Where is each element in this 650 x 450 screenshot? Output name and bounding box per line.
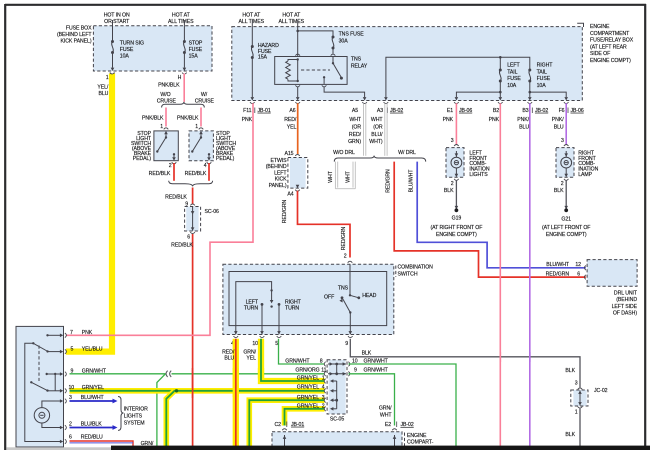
svg-text:RED/BLU: RED/BLU — [81, 435, 103, 441]
svg-text:(AT LEFT FRONT OF: (AT LEFT FRONT OF — [542, 225, 590, 231]
wire hot feed to stop fuse — [183, 20, 185, 42]
svg-text:ENGINE COMPT): ENGINE COMPT) — [436, 232, 477, 238]
wire PNK/BLK w/o cruise branch — [165, 108, 167, 127]
svg-text:15A: 15A — [189, 53, 199, 59]
svg-text:10: 10 — [69, 385, 75, 391]
svg-text:JB-02: JB-02 — [390, 108, 403, 114]
svg-text:GRN): GRN) — [348, 139, 361, 145]
svg-text:RED/: RED/ — [222, 349, 235, 355]
svg-text:RED/: RED/ — [284, 117, 297, 123]
hot at all times label (stop fuse) — [168, 13, 194, 25]
svg-text:1: 1 — [106, 75, 109, 81]
svg-text:G19: G19 — [452, 215, 462, 221]
wire RED/BLU pin 6 (red over blue) — [70, 441, 134, 447]
svg-text:PEDAL): PEDAL) — [216, 156, 235, 162]
left front combination lights box — [446, 148, 464, 178]
svg-text:FUSE: FUSE — [537, 76, 551, 82]
fuse TURN SIG FUSE 10A — [111, 40, 114, 54]
wire hot feed hazard fuse — [251, 20, 253, 47]
svg-text:TURN: TURN — [244, 305, 258, 311]
label bracket combination switch — [395, 266, 397, 278]
connector SC-06 — [190, 204, 195, 206]
svg-text:LEFT: LEFT — [274, 170, 287, 176]
wire BLK left lamp to ground — [455, 180, 457, 209]
fuse RIGHT TAIL FUSE 10A — [528, 69, 531, 83]
internal dashed mechanical link — [38, 346, 40, 382]
SC-05 pin arcs left — [324, 362, 326, 367]
left lamp label — [469, 150, 489, 178]
svg-text:W/O DRL: W/O DRL — [333, 150, 355, 156]
brace interior lights system — [118, 397, 124, 431]
svg-text:WHT: WHT — [349, 117, 361, 123]
wire GRN/YEL from C2 JB-01 to SC-05 pin 2 — [285, 409, 325, 426]
svg-text:TNS: TNS — [338, 285, 349, 291]
svg-text:H: H — [178, 75, 182, 81]
right turn contact — [278, 303, 281, 306]
pin F11 output — [250, 97, 255, 104]
svg-text:STOP: STOP — [189, 41, 203, 47]
fuse TNS FUSE 30A — [332, 36, 335, 50]
wire GRN/WHT flasher pin 9 with break, to SC-05 pin 11 — [70, 373, 166, 375]
svg-text:LEFT: LEFT — [246, 299, 259, 305]
wire BLU/WHT pin 3 to interior lights system — [70, 400, 113, 402]
turn signal wiper — [271, 290, 273, 300]
svg-text:GRN/WHT: GRN/WHT — [82, 369, 107, 375]
relay dashed link coil to switch — [301, 69, 330, 71]
engine compartment fuse/relay box enclosure — [232, 27, 583, 101]
connector SC-05 box — [329, 360, 346, 414]
node junction left tail fuse top — [499, 56, 502, 59]
internal switch 2 — [30, 381, 32, 383]
svg-text:A15: A15 — [285, 151, 294, 157]
internal line to pin 3 — [42, 401, 61, 408]
svg-text:BLU/WHT: BLU/WHT — [81, 395, 105, 401]
flasher unit box — [16, 326, 64, 447]
svg-text:GRN/ORG: GRN/ORG — [295, 368, 319, 374]
svg-text:A5: A5 — [352, 108, 358, 114]
combination switch bottom pins — [234, 331, 239, 338]
svg-text:4: 4 — [204, 163, 207, 169]
pin 1 entry — [164, 128, 169, 134]
svg-text:FUSE: FUSE — [507, 76, 521, 82]
fuse HAZARD FUSE 15A — [251, 45, 254, 59]
DRL pin 12 — [584, 266, 586, 271]
svg-text:ENGINE COMPT): ENGINE COMPT) — [590, 58, 631, 64]
wire BLU/BLK pin 2 to interior lights system — [70, 427, 113, 429]
wire PNK/BLU F6 to right lamp — [565, 103, 567, 145]
combination switch label — [398, 265, 434, 278]
svg-text:(OR: (OR — [352, 125, 362, 131]
svg-text:B3: B3 — [522, 108, 528, 114]
svg-text:E1: E1 — [447, 108, 453, 114]
svg-text:RED/BLK: RED/BLK — [149, 171, 171, 177]
wire BLK right lamp to ground — [565, 180, 567, 209]
wire BLK JC-02 down off page — [579, 409, 581, 448]
right lamp label — [578, 150, 598, 178]
pin 1 entry — [199, 128, 204, 134]
SC-05 internal bus top — [328, 364, 346, 374]
svg-text:YEL: YEL — [287, 125, 297, 131]
engine compartment fuse/relay box label — [590, 24, 634, 64]
svg-text:PNK: PNK — [242, 117, 253, 123]
svg-text:RED/GRN: RED/GRN — [341, 226, 347, 250]
svg-text:F6: F6 — [559, 108, 565, 114]
svg-text:ENGINE COMPT): ENGINE COMPT) — [546, 232, 587, 238]
svg-text:TAIL: TAIL — [507, 69, 517, 75]
wire overdraw PNK B2 and PNK/BLU B3 across BLK — [499, 352, 501, 362]
svg-text:BLU: BLU — [519, 125, 529, 131]
wire RED/GRN A4 to combination switch pin 2 — [298, 191, 351, 258]
wire PNK/BLK w/ cruise branch — [200, 108, 202, 127]
svg-text:HOT AT: HOT AT — [172, 13, 191, 19]
wire to right tail fuse — [500, 57, 530, 70]
svg-text:CRUISE: CRUISE — [157, 98, 177, 104]
svg-text:6: 6 — [577, 272, 580, 278]
svg-text:(BEHIND LEFT: (BEHIND LEFT — [57, 32, 92, 38]
svg-text:LEFT SIDE: LEFT SIDE — [612, 304, 638, 310]
ETWIS box — [290, 158, 306, 189]
connector A4 exit — [295, 185, 300, 192]
svg-text:GRN/YEL: GRN/YEL — [297, 384, 319, 390]
svg-text:RELAY: RELAY — [351, 64, 368, 70]
internal line to pin 2 — [42, 423, 61, 428]
svg-text:OF DASH): OF DASH) — [613, 310, 637, 316]
relay coil exit to A6 — [295, 85, 300, 87]
svg-text:12: 12 — [575, 262, 581, 268]
wire RED/BLK from switch pin 4 — [208, 163, 210, 181]
svg-text:ENGINE: ENGINE — [590, 24, 610, 30]
svg-text:FUSE/RELAY BOX: FUSE/RELAY BOX — [590, 38, 634, 44]
label bracket fuse/relay box — [577, 23, 583, 27]
svg-text:RED/GRN: RED/GRN — [282, 199, 288, 223]
wire GRN/YEL comb pin 10 to SC-05 pin 1 — [261, 339, 325, 381]
svg-text:5: 5 — [275, 341, 278, 347]
svg-text:(OR: (OR — [373, 125, 383, 131]
svg-text:JB-06: JB-06 — [459, 108, 472, 114]
svg-text:HOT AT: HOT AT — [242, 13, 261, 19]
svg-text:F11: F11 — [243, 108, 252, 114]
wire RED/GRN w/ drl to DRL unit pin 6 — [394, 162, 586, 278]
svg-text:10A: 10A — [120, 53, 130, 59]
svg-text:A4: A4 — [287, 192, 293, 198]
relay coil pin entry — [295, 54, 300, 56]
svg-text:JB-01: JB-01 — [291, 422, 304, 428]
SC-05 pin arcs right — [348, 362, 350, 367]
svg-text:HOT IN ON: HOT IN ON — [104, 13, 130, 19]
svg-text:BLU: BLU — [224, 356, 234, 362]
svg-text:RED/BLK: RED/BLK — [165, 195, 187, 201]
svg-text:CRUISE: CRUISE — [195, 98, 215, 104]
svg-text:2: 2 — [561, 181, 564, 187]
svg-text:WHT: WHT — [371, 117, 383, 123]
pin 2 exit left lamp — [454, 179, 459, 181]
svg-text:LIGHTS: LIGHTS — [469, 172, 488, 178]
internal wire pin 7 — [48, 334, 61, 336]
wire YEL/BLU from turn sig fuse to flasher box pin 5 — [66, 74, 112, 352]
svg-text:ENGINE: ENGINE — [407, 433, 427, 439]
pin 2 exit — [172, 157, 177, 164]
svg-text:GRN/: GRN/ — [243, 349, 256, 355]
svg-text:3: 3 — [575, 380, 578, 386]
svg-text:PNK/BLK: PNK/BLK — [177, 116, 199, 122]
wire RED/BLK merged to SC-06 — [192, 188, 194, 205]
internal lamp symbol — [34, 408, 49, 423]
svg-text:3: 3 — [69, 395, 72, 401]
svg-text:RED/: RED/ — [349, 132, 362, 138]
svg-text:PNK: PNK — [443, 117, 454, 123]
svg-text:W/: W/ — [201, 92, 208, 98]
svg-text:11: 11 — [321, 368, 326, 374]
DRL pin 6 — [584, 275, 586, 280]
svg-text:C2: C2 — [275, 422, 282, 428]
svg-text:ALL TIMES: ALL TIMES — [239, 19, 265, 25]
TNS switch inside combination switch — [349, 264, 351, 295]
fuse box dashed enclosure — [93, 26, 212, 71]
svg-text:WHT: WHT — [328, 170, 334, 182]
svg-text:TURN SIG: TURN SIG — [120, 41, 144, 47]
ground G19 — [455, 206, 459, 209]
relay switch — [332, 62, 334, 64]
wire GRN/WHT SC-05 pin 9 out to E2 — [349, 374, 395, 426]
right front combination lamp box — [556, 148, 574, 178]
fuse STOP FUSE 15A — [183, 40, 186, 54]
svg-text:HOT AT: HOT AT — [282, 13, 301, 19]
svg-text:10: 10 — [352, 358, 358, 364]
svg-text:GRN/WHT: GRN/WHT — [364, 368, 389, 374]
svg-text:SYSTEM: SYSTEM — [124, 421, 145, 427]
internal feed line to pin 6 — [25, 343, 61, 441]
svg-text:RED/GRN: RED/GRN — [386, 169, 392, 193]
svg-text:TNS FUSE: TNS FUSE — [339, 32, 365, 38]
connector row labels under fuse/relay box — [243, 108, 565, 114]
svg-text:PEDAL): PEDAL) — [133, 156, 152, 162]
wire GRN/WHT SC-05 pin 10 out, down off page — [349, 364, 457, 447]
node junction TNS feed — [296, 30, 299, 33]
svg-text:YEL/BLU: YEL/BLU — [82, 346, 103, 352]
DRL unit box — [587, 260, 637, 287]
wire A3 feed from tail fuse node — [386, 57, 500, 97]
brace w/o drl vs w/ drl — [334, 156, 425, 162]
connector JC-02 — [578, 388, 583, 390]
svg-text:BLU/: BLU/ — [371, 132, 383, 138]
wire BLU/WHT w/ drl to DRL unit pin 12 — [417, 162, 586, 268]
ETWIS label — [266, 158, 288, 189]
svg-text:BLU/WHT: BLU/WHT — [546, 262, 570, 268]
svg-text:3: 3 — [451, 138, 454, 144]
svg-text:BLK: BLK — [565, 432, 575, 438]
svg-text:TNS: TNS — [351, 57, 362, 63]
brace split w/o cruise vs w/ cruise — [162, 102, 205, 108]
stop light switch box w/ cruise (dashed) — [189, 131, 213, 161]
pin 1 fuse box output — [110, 68, 115, 75]
relay switch output — [322, 85, 327, 87]
svg-text:JB-01: JB-01 — [258, 108, 271, 114]
hot at all times label (hazard fuse) — [239, 13, 265, 25]
svg-text:6: 6 — [69, 435, 72, 441]
svg-text:OFF: OFF — [324, 295, 334, 301]
svg-text:FUSE: FUSE — [189, 47, 203, 53]
svg-text:RED/BLK: RED/BLK — [185, 171, 207, 177]
svg-text:LAMP: LAMP — [578, 172, 592, 178]
svg-text:1: 1 — [195, 124, 198, 130]
pin H fuse box output — [182, 68, 187, 75]
svg-text:A3: A3 — [377, 108, 383, 114]
internal switch 1 — [32, 342, 34, 344]
wire WHT A5 — [364, 103, 366, 156]
lamp symbol right — [565, 151, 567, 157]
svg-text:DRL UNIT: DRL UNIT — [614, 291, 638, 297]
svg-text:JB-02: JB-02 — [535, 108, 548, 114]
wire GRN comb pin 5 to SC-05 pin 8 — [279, 339, 325, 364]
wire right tail fuse to B3 and F6 — [529, 81, 531, 97]
svg-text:COMBINATION: COMBINATION — [398, 265, 434, 271]
pin 2 exit right lamp — [564, 179, 569, 181]
svg-text:YEL/: YEL/ — [97, 85, 109, 91]
svg-text:BLK: BLK — [444, 188, 454, 194]
svg-text:BLU/WHT: BLU/WHT — [409, 169, 415, 193]
lamp symbol left — [455, 151, 457, 157]
svg-text:2: 2 — [169, 163, 172, 169]
wire RED/BLK from SC-06 down off page — [192, 234, 194, 447]
svg-text:W/O: W/O — [160, 92, 170, 98]
wire PNK F11 to flasher box pin 7 — [66, 103, 253, 335]
bottom gray strip left — [7, 447, 112, 450]
pin 4 exit — [207, 157, 212, 164]
stop light switch box w/o cruise — [154, 131, 178, 161]
svg-text:LIGHTS: LIGHTS — [124, 414, 143, 420]
SC-05 internal bus bottom — [332, 381, 337, 409]
wire PNK B2 down off page — [499, 103, 501, 447]
svg-text:2: 2 — [451, 181, 454, 187]
wire GRN/WHT drop to off page bottom — [157, 374, 166, 447]
svg-text:6: 6 — [187, 234, 190, 240]
svg-text:KICK: KICK — [275, 177, 287, 183]
left turn contact — [261, 303, 264, 306]
svg-text:GRN/: GRN/ — [379, 406, 392, 412]
svg-text:10: 10 — [252, 341, 258, 347]
svg-text:SWITCH: SWITCH — [398, 272, 418, 278]
svg-text:OR START: OR START — [104, 19, 130, 25]
svg-text:7: 7 — [70, 330, 73, 336]
svg-text:5: 5 — [71, 346, 74, 352]
svg-text:GRN/WHT: GRN/WHT — [285, 358, 310, 364]
combination switch enclosure — [223, 264, 394, 334]
svg-text:COMPARTMENT: COMPARTMENT — [590, 31, 630, 37]
pin arcs on box edge — [65, 333, 67, 444]
svg-text:RED/BLK: RED/BLK — [171, 243, 193, 249]
wire RED/BLU (yellow w/ red core) comb pin 4 down off page — [233, 339, 239, 447]
svg-text:KICK PANEL): KICK PANEL) — [60, 39, 91, 45]
svg-text:10A: 10A — [537, 83, 547, 89]
stop light switch (w/ cruise) label — [216, 131, 236, 162]
svg-text:JB-02: JB-02 — [401, 422, 414, 428]
svg-text:1: 1 — [575, 409, 578, 415]
svg-text:GRN/YEL: GRN/YEL — [297, 376, 319, 382]
svg-text:ETWIS: ETWIS — [270, 158, 287, 164]
svg-text:BLU/BLK: BLU/BLK — [81, 422, 102, 428]
svg-text:BLU: BLU — [98, 91, 108, 97]
svg-text:PNK/BLK: PNK/BLK — [142, 116, 164, 122]
svg-text:SC-06: SC-06 — [205, 209, 219, 215]
turn signal switch feed from pin 4 — [236, 282, 272, 335]
interior lights system label — [124, 406, 148, 426]
svg-text:INTERIOR: INTERIOR — [124, 406, 148, 412]
svg-text:10A: 10A — [507, 83, 517, 89]
break symbol — [166, 371, 171, 377]
svg-text:WHT: WHT — [346, 170, 352, 182]
svg-text:1: 1 — [160, 124, 163, 130]
DRL unit label — [612, 291, 638, 317]
wire BLK comb pin 9 to JC-02 — [350, 339, 580, 388]
svg-text:9: 9 — [345, 341, 348, 347]
svg-text:ALL TIMES: ALL TIMES — [168, 19, 194, 25]
svg-text:GRN/YEL: GRN/YEL — [297, 403, 319, 409]
svg-text:8: 8 — [320, 358, 323, 364]
svg-text:GRN/YEL: GRN/YEL — [297, 395, 319, 401]
svg-text:TAIL: TAIL — [537, 69, 547, 75]
svg-text:B2: B2 — [493, 108, 499, 114]
wire left tail fuse top — [499, 57, 501, 70]
svg-text:3: 3 — [561, 138, 564, 144]
svg-text:PNK: PNK — [489, 117, 500, 123]
svg-text:G21: G21 — [561, 217, 571, 223]
TNS relay box — [275, 57, 347, 85]
svg-text:HEAD: HEAD — [362, 293, 376, 299]
ground G21 — [564, 206, 568, 209]
engine compartment box bottom — [272, 432, 402, 450]
svg-text:PNK/: PNK/ — [552, 117, 564, 123]
relay switch pin entry — [331, 54, 336, 56]
svg-text:PNK: PNK — [82, 330, 93, 336]
svg-text:PANEL): PANEL) — [269, 183, 287, 189]
fuse box (behind left kick panel) label — [57, 26, 92, 45]
svg-text:W/ DRL: W/ DRL — [398, 150, 416, 156]
wire left tail fuse to E1 and B2 — [499, 81, 501, 97]
svg-text:COMPART-: COMPART- — [407, 440, 434, 446]
svg-text:BLK: BLK — [362, 351, 372, 357]
junction and branch down — [166, 391, 174, 447]
svg-text:SIDE OF: SIDE OF — [590, 51, 610, 57]
svg-text:PNK/: PNK/ — [517, 117, 529, 123]
svg-text:BLK: BLK — [554, 188, 564, 194]
wire PNK/BLU B3 down off page — [529, 103, 531, 447]
fuse LEFT TAIL FUSE 10A — [499, 69, 502, 83]
svg-text:(BEHIND: (BEHIND — [266, 164, 287, 170]
wire WHT A3 — [385, 103, 387, 156]
svg-text:RED/GRN: RED/GRN — [546, 272, 570, 278]
hot in on or start label — [104, 13, 130, 25]
wire WHT w/o drl stubs — [335, 162, 355, 189]
wire hot feed TNS — [297, 20, 299, 56]
wire hot feed to turn sig fuse — [112, 20, 114, 42]
hot at all times label (tns) — [279, 13, 305, 25]
svg-text:FUSE: FUSE — [120, 47, 134, 53]
svg-text:WHT): WHT) — [369, 139, 383, 145]
wire to TNS fuse — [298, 31, 333, 37]
svg-text:30A: 30A — [339, 38, 349, 44]
svg-text:BLU: BLU — [554, 125, 564, 131]
svg-text:(AT LEFT REAR: (AT LEFT REAR — [590, 44, 627, 50]
svg-text:PNK/BLK: PNK/BLK — [158, 82, 180, 88]
svg-text:SC-05: SC-05 — [330, 417, 344, 423]
svg-text:(BEHIND: (BEHIND — [616, 297, 637, 303]
black bottom bar — [111, 446, 650, 450]
svg-text:BLK: BLK — [565, 368, 575, 374]
wire RED/YEL A6 to ETWIS A15 — [297, 103, 299, 154]
wire crossing overdraws — [192, 368, 194, 398]
SC-05 left wire labels — [285, 358, 322, 364]
svg-text:JB-06: JB-06 — [571, 108, 584, 114]
